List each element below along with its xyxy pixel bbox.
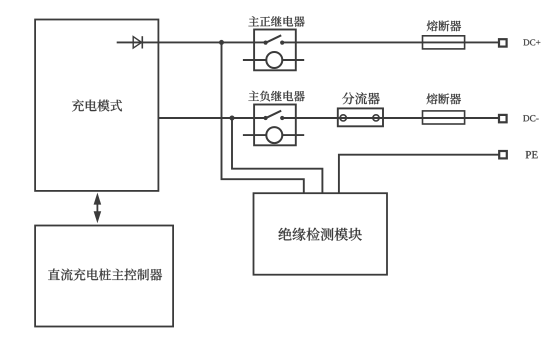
relay K1 switch blade (open) bbox=[266, 35, 282, 43]
text: 充电模式 bbox=[72, 100, 122, 112]
diode D1 on DC+ bus bbox=[133, 36, 142, 48]
box U1: charging module (充电模式) bbox=[35, 20, 158, 191]
box U3: insulation detection module (绝缘检测模块) bbox=[254, 193, 388, 275]
terminal square DC+ bbox=[499, 39, 507, 46]
wire: DC+ bus from relay K1 right contact through fuse F1 to DC+ terminal bbox=[282, 41, 498, 43]
wire: PE line from insulation module pin 3 up and right to PE terminal bbox=[339, 155, 499, 194]
relay K2 enclosure box bbox=[254, 105, 296, 146]
fuse F1 body bbox=[423, 36, 465, 49]
box U2: DC charging pile main controller (直流充电桩主控制器) bbox=[35, 226, 173, 327]
label: 熔断器 (fuse F2) bbox=[427, 93, 462, 104]
relay K2 contact dots bbox=[264, 116, 285, 120]
label: PE bbox=[526, 151, 538, 158]
label: 主负继电器 (main negative relay) bbox=[248, 91, 304, 102]
label: 主正继电器 (main positive relay) bbox=[248, 16, 304, 27]
text: 绝缘检测模块 bbox=[279, 228, 362, 241]
bidirectional arrow between U1 and U2 bbox=[94, 193, 102, 224]
wire: tap from node A down and right into insulation module pin 1 bbox=[222, 42, 304, 193]
wire: tap from node B down and right into insulation module pin 2 bbox=[232, 118, 322, 193]
label: DC+ bbox=[523, 39, 540, 45]
shunt R1 body box bbox=[338, 108, 383, 126]
junction node B on DC- bus bbox=[230, 116, 235, 121]
junction node A on DC+ bus bbox=[219, 40, 224, 45]
relay K2 coil circle bbox=[266, 127, 282, 143]
label: 分流器 (shunt) bbox=[342, 92, 380, 104]
terminal square DC- bbox=[499, 115, 507, 122]
label: DC- bbox=[523, 115, 539, 121]
shunt R1 terminal circle left bbox=[340, 115, 346, 121]
wire: DC+ bus from U1 through diode to relay K1 left contact bbox=[117, 41, 266, 43]
wire: DC- bus from U1 to relay K2 left contact bbox=[158, 117, 265, 119]
relay K1 coil line bbox=[243, 59, 304, 61]
text: 直流充电桩主控制器 bbox=[48, 269, 162, 281]
shunt R1 terminal circle right bbox=[373, 115, 379, 121]
relay K1 enclosure box bbox=[254, 30, 296, 71]
terminal square PE bbox=[499, 151, 507, 158]
relay K1 coil circle bbox=[266, 52, 282, 68]
relay K2 coil line bbox=[243, 134, 304, 136]
label: 熔断器 (fuse F1) bbox=[427, 20, 461, 31]
fuse F2 body bbox=[423, 111, 465, 124]
relay K2 switch blade (open) bbox=[266, 111, 282, 119]
relay K1 contact dots bbox=[264, 41, 285, 45]
wire: DC- bus from relay K2 right contact through shunt and fuse F2 to DC- terminal bbox=[282, 117, 498, 119]
